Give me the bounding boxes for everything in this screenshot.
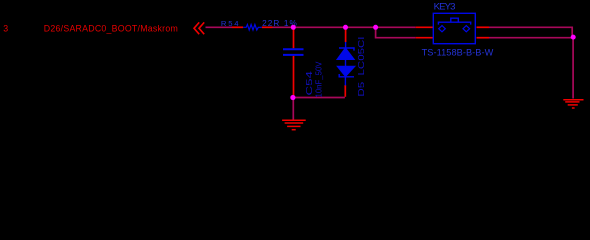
svg-text:C54: C54 <box>305 70 314 95</box>
svg-text:LC05CI: LC05CI <box>357 37 366 76</box>
svg-text:3: 3 <box>3 24 8 34</box>
svg-text:R54: R54 <box>221 19 239 28</box>
svg-text:KEY3: KEY3 <box>434 2 456 13</box>
svg-text:D5: D5 <box>357 81 366 97</box>
svg-text:D26/SARADC0_BOOT/Maskrom: D26/SARADC0_BOOT/Maskrom <box>44 24 178 34</box>
svg-text:10nF_50V: 10nF_50V <box>315 61 324 98</box>
svg-text:TS-1158B-B-B-W: TS-1158B-B-B-W <box>422 47 494 57</box>
